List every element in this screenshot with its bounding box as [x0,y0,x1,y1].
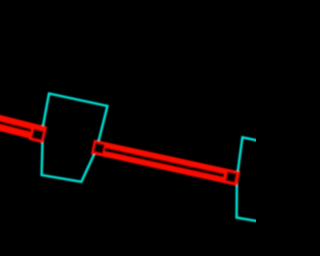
slot of rail P2 [104,148,224,178]
plank P1 (red rail entering from left, joint block J1 at right end) [0,107,47,144]
body B2 (cyan trapezoid container, right, clipped) [237,137,301,224]
rail bar P1 [0,107,47,142]
slot of rail P1 [0,113,31,132]
body B1 (cyan trapezoid container, left) [42,94,108,182]
joint block J1 black core [32,129,44,140]
joint block J1 outer border [29,126,47,144]
plank P2 (long red rail between B1 and B2) [91,140,240,186]
rail bar P2 [91,140,240,186]
joint block J2 black core (left end, at B1) [94,143,105,154]
joint block J3 black core (right end, at B2) [226,172,237,183]
